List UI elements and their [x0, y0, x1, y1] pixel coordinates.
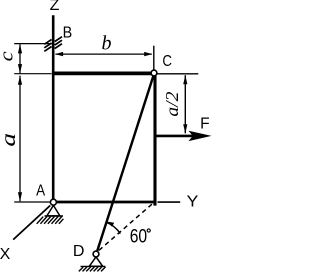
- svg-text:Y: Y: [187, 193, 199, 210]
- svg-text:a: a: [0, 133, 20, 147]
- svg-text:a/2: a/2: [162, 92, 182, 117]
- svg-text:c: c: [0, 51, 17, 62]
- support hatching at B (left side): [44, 40, 51, 52]
- member: top horizontal beam B-C: [52, 72, 153, 76]
- svg-text:A: A: [36, 183, 46, 200]
- dimension b: left arrowhead: [55, 52, 63, 56]
- dashed construction line D to corner: [99, 204, 153, 251]
- dimension c: top extension line: [14, 43, 53, 45]
- angle arc 60 degrees: [106, 222, 120, 233]
- force F: arrowhead: [189, 131, 212, 141]
- dimension a: bottom extension line: [14, 201, 50, 203]
- dimension a/2: top extension line: [158, 73, 199, 75]
- support hatching at B (right side): [55, 37, 62, 49]
- pin support at A: triangle: [47, 205, 60, 216]
- node circle C: [151, 70, 157, 76]
- dimension c: lower extension line: [14, 73, 51, 75]
- node circle D: [93, 251, 99, 257]
- node circle A: [50, 199, 56, 205]
- pin support at D: triangle: [89, 257, 102, 266]
- svg-text:b: b: [102, 32, 112, 54]
- svg-text:60: 60: [130, 226, 148, 248]
- dimension b: right extension line: [153, 46, 155, 70]
- axis Y line: [158, 201, 181, 203]
- dimension a: vertical dimension line: [19, 76, 21, 202]
- dimension b: dimension line: [56, 53, 152, 55]
- svg-text:F: F: [200, 115, 209, 132]
- wire: left column (Z axis + member AB): [52, 15, 55, 201]
- dimension a/2: up arrowhead: [183, 75, 187, 84]
- dimension b: right arrowhead: [144, 52, 152, 56]
- dimension a: up arrowhead: [18, 76, 22, 85]
- dimension a/2: down arrowhead: [183, 124, 187, 133]
- dimension c: up arrowhead: [18, 44, 22, 53]
- pin support at A: ground hatching: [37, 217, 64, 224]
- degree symbol: [147, 229, 150, 232]
- svg-text:B: B: [63, 24, 73, 41]
- svg-text:X: X: [0, 246, 11, 263]
- force F: shaft: [156, 135, 193, 138]
- dimension c: down arrowhead: [18, 64, 22, 73]
- svg-text:C: C: [162, 53, 172, 70]
- member: right column C to bottom corner: [153, 72, 156, 206]
- pin support at D: ground hatching: [79, 267, 106, 272]
- axis X line: [13, 206, 50, 240]
- svg-text:Z: Z: [50, 0, 60, 14]
- bar C-D (diagonal rod): [97, 76, 153, 251]
- dimension c: vertical dimension line: [19, 44, 21, 73]
- dimension a: down arrowhead: [18, 192, 22, 201]
- angle arc arrowhead: [106, 221, 114, 226]
- svg-text:D: D: [73, 243, 85, 260]
- pin support at A: base line: [45, 215, 64, 217]
- pin support at D: base line: [81, 265, 106, 267]
- member: bottom beam A to corner: [55, 201, 156, 204]
- dimension a/2: vertical dimension line: [184, 75, 186, 133]
